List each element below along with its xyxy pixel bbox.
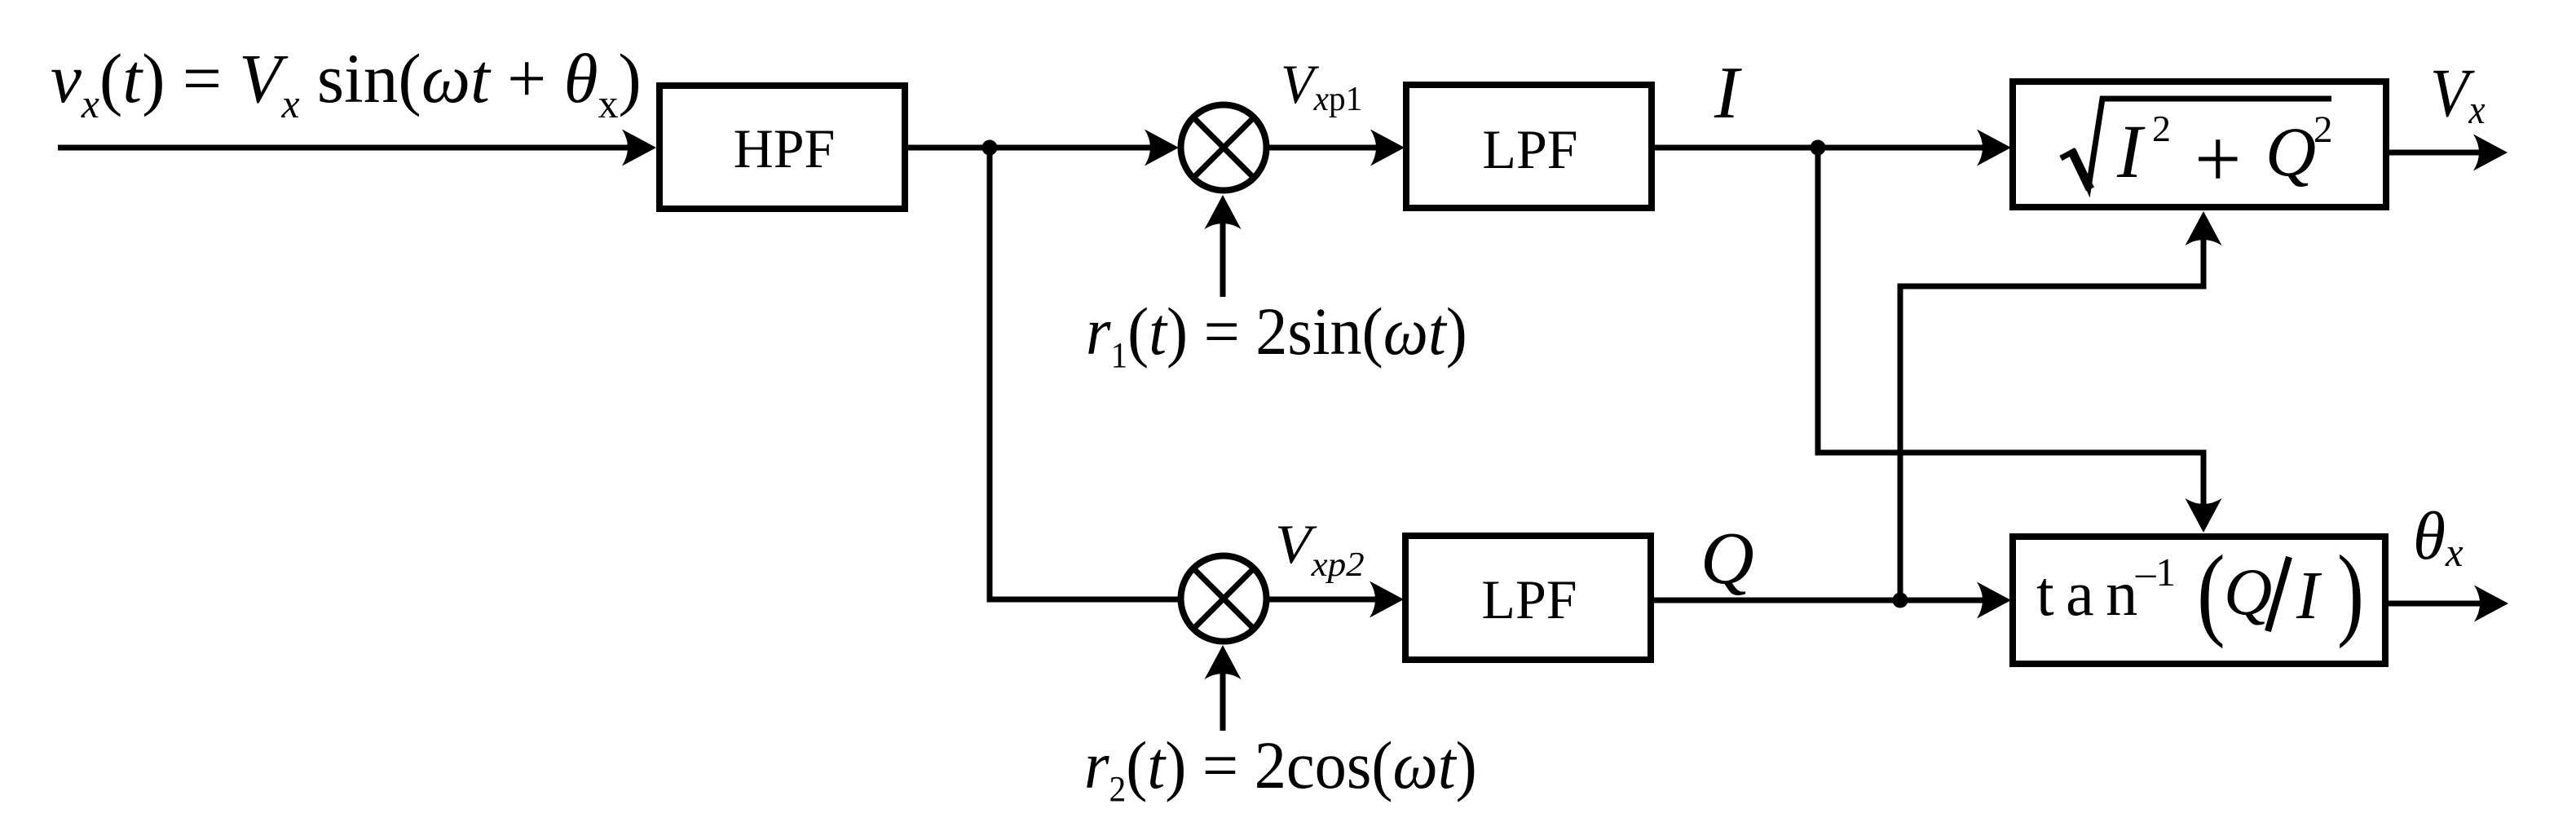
node junction dot Q <box>1893 593 1908 608</box>
svg-text:vx(t) = Vx sin(ωt + θx): vx(t) = Vx sin(ωt + θx) <box>51 40 642 126</box>
label open paren <box>2197 535 2225 649</box>
arrowhead into HPF <box>622 130 656 166</box>
svg-text:I: I <box>2116 110 2146 194</box>
arrowhead I into tan block top <box>2186 498 2222 533</box>
svg-text:LPF: LPF <box>1482 118 1577 180</box>
wire I drop vertical <box>1815 148 1821 453</box>
block HPF <box>659 86 905 209</box>
svg-text:–1: –1 <box>2135 550 2176 595</box>
svg-text:): ) <box>2337 534 2364 649</box>
wire HPF output to multiplier M1 <box>908 145 1151 151</box>
svg-text:Vx: Vx <box>2430 55 2486 133</box>
arrowhead into sqrt block <box>1977 130 2011 166</box>
arrowhead output Vx <box>2473 135 2508 171</box>
node label r2(t)=2cos(wt) <box>1084 728 1477 809</box>
arrowhead into LPF1 <box>1370 130 1405 166</box>
svg-text:tan: tan <box>2036 558 2150 629</box>
svg-text:2: 2 <box>2152 108 2171 149</box>
arrowhead into tan block <box>1977 582 2011 619</box>
radical thick downstroke <box>2071 150 2090 189</box>
arrowhead into LPF2 <box>1370 581 1404 618</box>
multiplier M1 circle <box>1181 105 1267 191</box>
node label r1(t)=2sin(wt) <box>1086 294 1467 375</box>
wire r2 reference into M2 <box>1220 652 1226 731</box>
label slash <box>2268 557 2289 631</box>
svg-text:I: I <box>1714 51 1742 134</box>
multiplier M2 circle <box>1181 556 1267 642</box>
wire input signal <box>58 145 629 151</box>
wire junction drop vertical <box>987 148 993 599</box>
node label Vx <box>2430 55 2486 133</box>
wire M2 to LPF2 <box>1269 597 1376 603</box>
multiplier M1 X stroke 2 <box>1194 118 1253 177</box>
svg-text:Q: Q <box>1700 517 1754 599</box>
arrowhead r2 into M2 bottom <box>1205 645 1242 679</box>
svg-text:(: ( <box>2197 535 2225 649</box>
svg-text:Vxp1: Vxp1 <box>1281 53 1362 117</box>
svg-text:HPF: HPF <box>734 117 836 179</box>
multiplier M2 X stroke 2 <box>1194 569 1253 628</box>
radical sign <box>2061 99 2331 188</box>
wire M1 to LPF1 <box>1269 145 1378 151</box>
wire LPF2 output Q <box>1654 598 1984 603</box>
svg-text:I: I <box>2296 558 2322 634</box>
wire r1 reference into M1 <box>1220 201 1226 297</box>
block LPF2 <box>1405 536 1651 660</box>
svg-text:2: 2 <box>2314 108 2333 151</box>
arrowhead output theta_x <box>2474 586 2508 622</box>
wire LPF1 output I <box>1655 145 1984 151</box>
multiplier M2 X stroke 1 <box>1194 569 1253 628</box>
svg-text:θx: θx <box>2413 497 2464 575</box>
node junction dot after HPF <box>982 140 998 156</box>
svg-text:LPF: LPF <box>1481 568 1577 630</box>
wire bottom branch to multiplier M2 <box>987 597 1183 603</box>
multiplier M1 X stroke 1 <box>1194 118 1253 177</box>
wire Q crossover horizontal <box>1898 284 2207 290</box>
wire sqrt output Vx <box>2389 150 2481 156</box>
svg-text:r1(t) = 2sin(ωt): r1(t) = 2sin(ωt) <box>1086 294 1467 375</box>
arrowhead into multiplier M1 <box>1145 130 1179 166</box>
svg-text:Q: Q <box>2265 113 2316 191</box>
svg-text:Q: Q <box>2224 555 2272 629</box>
node input label vx(t)=Vx sin(wt+theta_x) <box>51 40 642 126</box>
node label Vxp2 <box>1275 514 1365 583</box>
svg-text:Vxp2: Vxp2 <box>1275 514 1365 583</box>
svg-text:+: + <box>2194 113 2242 206</box>
block LPF1 <box>1406 85 1652 208</box>
svg-text:r2(t) = 2cos(ωt): r2(t) = 2cos(ωt) <box>1084 728 1477 809</box>
wire Q rise vertical <box>1898 286 1903 600</box>
label close paren <box>2337 534 2364 649</box>
arrowhead r1 into M1 bottom <box>1205 195 1242 229</box>
wire Q riser up to sqrt block <box>2201 236 2207 290</box>
wire tan output theta_x <box>2389 601 2481 607</box>
node label Vxp1 <box>1281 53 1362 117</box>
block tan^-1(Q/I) <box>2013 537 2385 664</box>
node label theta_x <box>2413 497 2464 575</box>
wire I crossover horizontal <box>1815 450 2207 456</box>
node junction dot I <box>1811 140 1826 156</box>
block sqrt(I^2+Q^2) <box>2013 82 2386 207</box>
wire I riser down to tan block <box>2201 450 2207 508</box>
arrowhead Q into sqrt block bottom <box>2186 211 2222 245</box>
